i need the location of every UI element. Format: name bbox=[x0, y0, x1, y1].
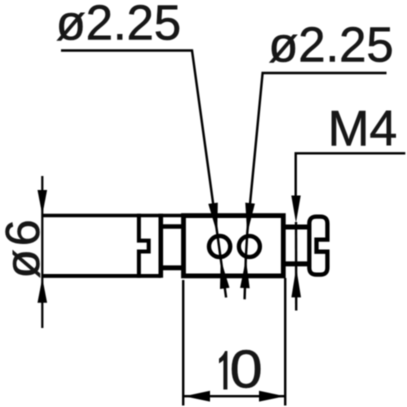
svg-text:ø2.25: ø2.25 bbox=[268, 19, 393, 73]
svg-text:0: 0 bbox=[230, 340, 263, 400]
svg-text:ø2.25: ø2.25 bbox=[56, 0, 181, 51]
svg-text:M4: M4 bbox=[328, 101, 397, 157]
svg-text:ø6: ø6 bbox=[0, 216, 50, 278]
